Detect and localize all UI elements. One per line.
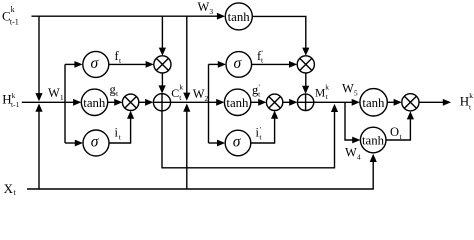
svg-text:tanh: tanh bbox=[228, 10, 251, 24]
svg-text:g't: g't bbox=[252, 82, 261, 98]
wire: feed to sigma f bbox=[65, 61, 83, 68]
add1 circle (C_t sum) bbox=[153, 94, 170, 111]
wire: multiply h output to H_t bbox=[419, 99, 451, 106]
wire: feed to sigma i bbox=[65, 140, 83, 147]
sigma i gate circle bbox=[83, 130, 109, 156]
wire: C_{t-1} top line to tanh bbox=[32, 13, 226, 20]
svg-text:tanh: tanh bbox=[362, 134, 385, 148]
wire: tanh top output right and down into multiply f'c bbox=[252, 16, 309, 55]
svg-text:σ: σ bbox=[91, 55, 100, 72]
wire: add2 output M line into tanh W5 bbox=[314, 99, 360, 106]
wire: X line rise to C_t junction bbox=[183, 104, 190, 190]
svg-text:tanh: tanh bbox=[362, 96, 385, 110]
tanh O circle bbox=[360, 127, 386, 153]
tanh W5 circle bbox=[360, 89, 387, 116]
wire: tanh O output right and up into multiply h bbox=[386, 111, 414, 140]
wire: block1 gate feed vertical bbox=[64, 64, 66, 143]
wire: add1 output W2 line into tanh g' bbox=[171, 99, 225, 106]
wire: C line drop to C_t junction bbox=[183, 16, 190, 101]
tanh g gate circle bbox=[81, 89, 107, 115]
sigma i' gate circle bbox=[225, 130, 251, 156]
sigma f gate circle bbox=[83, 51, 109, 77]
svg-text:tanh: tanh bbox=[83, 96, 106, 110]
wire: multiply gi to add1 bbox=[139, 99, 154, 106]
wire: C_t feedback down right and up into M line bbox=[162, 104, 338, 168]
wire: C line drop to multiply fc bbox=[159, 16, 166, 56]
sigma f' gate circle bbox=[226, 52, 252, 78]
wire: multiply fc down to add1 bbox=[159, 73, 166, 94]
wire: tanh g' to multiply g'i' bbox=[251, 99, 267, 106]
wire: tanh g to multiply gi bbox=[108, 99, 123, 106]
svg-text:tanh: tanh bbox=[226, 96, 249, 110]
wire: sigma i to multiply gi bbox=[109, 111, 134, 143]
svg-text:σ: σ bbox=[233, 133, 242, 150]
wire: X_t bottom line with end rise to tanh O bbox=[27, 154, 377, 189]
wire: W4 branch from M line down to tanh O bbox=[345, 102, 360, 143]
wire: sigma f to multiply fc bbox=[109, 61, 154, 68]
wire: block2 gate feed vertical bbox=[208, 64, 210, 143]
wire: sigma f' to multiply f'c bbox=[252, 61, 298, 68]
wire: C line drop to H junction bbox=[35, 16, 42, 101]
wire: sigma i' to multiply g'i' bbox=[251, 111, 278, 144]
wire: tanh W5 to multiply h bbox=[387, 99, 402, 106]
wire: H_{t-1} line into tanh g bbox=[22, 99, 82, 106]
wire: feed to sigma f' bbox=[209, 61, 227, 68]
multiply h circle (output gate) bbox=[402, 94, 419, 111]
svg-text:σ: σ bbox=[234, 55, 243, 72]
wire: multiply f'c down to add2 bbox=[302, 73, 309, 94]
tanh top circle (tanh of C line) bbox=[225, 3, 252, 30]
multiply f'c circle bbox=[297, 56, 314, 73]
multiply g'i' circle bbox=[266, 94, 282, 110]
add2 circle (M_t sum) bbox=[297, 94, 313, 110]
tanh g' gate circle bbox=[224, 89, 250, 115]
wire: X line rise to H junction bbox=[35, 104, 42, 190]
multiply gi circle (g x i) bbox=[122, 94, 138, 110]
multiply fc circle (f x C) bbox=[154, 56, 171, 73]
svg-text:σ: σ bbox=[91, 133, 100, 150]
wire: multiply g'i' to add2 bbox=[283, 99, 298, 106]
wire: feed to sigma i' bbox=[209, 140, 226, 147]
